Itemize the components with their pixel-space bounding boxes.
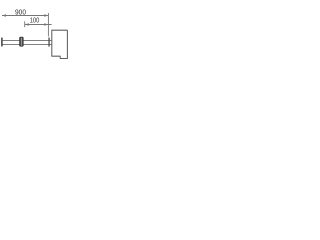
collar highlight — [21, 38, 22, 46]
dimension line 900 — [2, 15, 48, 17]
tube bar bottom line — [2, 43, 52, 45]
extension line right (shared) — [47, 13, 49, 37]
housing box — [52, 30, 68, 58]
arrowhead 900 right — [44, 14, 48, 16]
tube bar top line — [2, 40, 52, 42]
dimension line 100 — [25, 24, 52, 26]
svg-text:900: 900 — [15, 7, 26, 16]
left end cap — [1, 38, 3, 47]
arrowhead 100 right — [44, 23, 48, 25]
extension line 100 left — [24, 21, 26, 27]
flange washer at housing — [48, 38, 49, 47]
arrowhead 100 left — [25, 23, 29, 25]
collar ring — [19, 37, 23, 47]
background — [0, 0, 70, 70]
arrowhead 900 left — [2, 14, 6, 16]
svg-text:100: 100 — [30, 15, 40, 24]
